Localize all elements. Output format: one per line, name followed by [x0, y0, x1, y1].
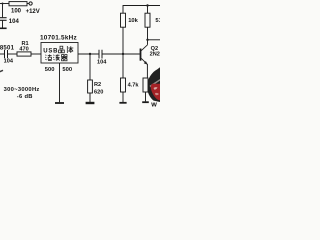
node supply rail / 51k: [146, 4, 148, 6]
wire box bottom to ground: [59, 63, 61, 102]
watermark blob dark: [147, 67, 160, 102]
transistor Q2 emitter: [141, 58, 147, 64]
ground (emitter resistor): [142, 101, 149, 103]
capacitor 104 (decoupling): [0, 17, 7, 19]
watermark red inner light marks: [154, 87, 158, 90]
svg-text:-6 dB: -6 dB: [17, 94, 33, 100]
ground (left rail): [0, 27, 7, 29]
svg-text:104: 104: [97, 60, 107, 66]
wire R1 to box: [31, 53, 41, 55]
capacitor 104 (coupling): [98, 50, 100, 59]
wire rail down: [2, 4, 4, 18]
node base bias: [122, 53, 124, 55]
wire 4.7k to ground: [122, 92, 124, 102]
node supply-left: [2, 3, 4, 5]
wire emitter down: [146, 64, 148, 78]
glyph 波: [53, 54, 59, 60]
wire 51k to collector node: [147, 27, 149, 45]
ground (4.7k): [119, 102, 126, 104]
wire bias divider vertical: [122, 27, 124, 78]
wire emitter resistor to ground: [145, 92, 147, 101]
terminal +12V circle: [29, 2, 32, 5]
resistor 51k: [145, 13, 150, 27]
wire box output: [78, 53, 99, 55]
wire to +12V terminal: [27, 3, 29, 5]
ground (R2): [86, 102, 95, 104]
svg-text:4.7k: 4.7k: [128, 83, 140, 89]
watermark blob light streak: [150, 79, 160, 87]
node filter output / R2: [89, 53, 91, 55]
stray mark (scan artifact): [0, 70, 3, 72]
svg-text:+12V: +12V: [26, 9, 40, 15]
svg-text:8501: 8501: [0, 45, 15, 51]
transistor Q2 emitter arrow: [144, 61, 148, 65]
svg-text:51k: 51k: [155, 18, 160, 24]
transistor Q2 base bar: [140, 49, 142, 61]
wire R2 to ground: [89, 93, 91, 102]
node collector output: [146, 39, 148, 41]
watermark blob red: [151, 84, 160, 100]
svg-text:10701.5kHz: 10701.5kHz: [40, 34, 77, 41]
svg-text:USB: USB: [43, 48, 58, 54]
wire input left: [0, 53, 4, 55]
glyph 滤: [45, 54, 52, 60]
svg-text:500: 500: [45, 67, 55, 73]
svg-text:100: 100: [11, 9, 22, 15]
wire node to R2: [89, 54, 91, 80]
junction node dots: [2, 3, 149, 65]
resistor (emitter, over blob): [143, 78, 148, 92]
ground (filter center): [55, 102, 64, 104]
svg-text:620: 620: [94, 90, 103, 96]
resistor 100: [9, 2, 27, 6]
wire collector output right: [148, 39, 161, 41]
filter box USB crystal filter: [41, 43, 78, 64]
resistor R1 470: [17, 52, 31, 56]
svg-text:2N2: 2N2: [150, 52, 160, 58]
wire top-left supply rail: [0, 3, 9, 5]
svg-text:R2: R2: [94, 82, 101, 88]
svg-text:10k: 10k: [128, 18, 138, 24]
svg-text:104: 104: [4, 59, 14, 65]
glyph 器: [61, 55, 67, 61]
resistor R2 620: [88, 80, 93, 93]
wire cap to base: [102, 53, 140, 55]
glyph 体: [67, 46, 73, 53]
glyph 晶: [59, 46, 65, 53]
wire cap to ground: [2, 20, 4, 27]
svg-text:w: w: [150, 100, 157, 109]
transistor Q2 collector: [141, 45, 147, 51]
resistor 4.7k: [121, 78, 126, 92]
capacitor 104 (input series): [4, 50, 6, 58]
wire rail to 51k: [147, 6, 149, 14]
resistor 10k: [121, 13, 126, 27]
wire rail to 10k: [122, 6, 124, 14]
svg-text:500: 500: [62, 67, 72, 73]
wire cap to R1: [8, 53, 18, 55]
svg-text:470: 470: [19, 46, 28, 52]
wire top supply rail right: [123, 5, 160, 7]
svg-text:300~3000Hz: 300~3000Hz: [4, 87, 40, 93]
svg-text:104: 104: [9, 19, 20, 25]
